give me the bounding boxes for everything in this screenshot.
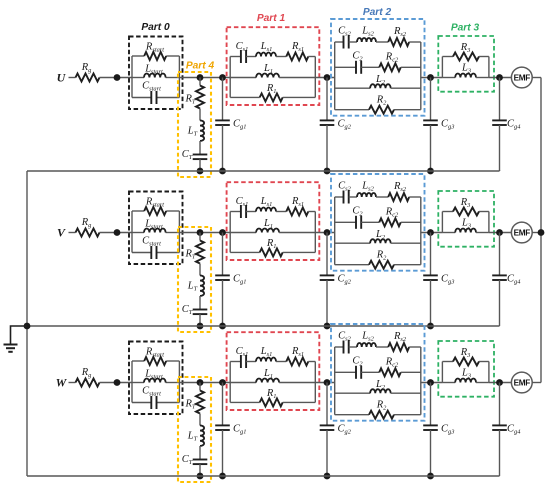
- wire (Part 1 left rail): [229, 362, 231, 403]
- resistor R_g (phase U): [76, 62, 100, 82]
- wire (left rail): [26, 171, 28, 476]
- svg-text:C2: C2: [352, 206, 363, 218]
- Part 1 box (phase W): [227, 332, 320, 410]
- svg-text:Cg2: Cg2: [338, 274, 352, 286]
- capacitor C_s1 (phase U): [230, 41, 248, 63]
- wire: [179, 382, 230, 384]
- node (phase U) C_g2 bottom: [324, 168, 331, 175]
- wire: [69, 232, 76, 234]
- node (phase W) Part 4 top: [197, 379, 204, 386]
- Part 3 box (phase V): [438, 191, 494, 247]
- resistor R_2 (phase V): [335, 250, 421, 269]
- svg-text:Cg1: Cg1: [233, 424, 246, 436]
- svg-text:Cg4: Cg4: [507, 274, 521, 286]
- resistor R_s1 (phase U): [276, 41, 315, 60]
- svg-text:Cstart: Cstart: [142, 81, 161, 93]
- wire: [179, 77, 230, 79]
- capacitor C_s2 (phase U): [335, 26, 352, 49]
- svg-text:Cg3: Cg3: [441, 274, 454, 286]
- resistor R_g (phase W): [76, 367, 100, 387]
- Part 3 box (phase U): [438, 36, 494, 92]
- wire (right rail): [540, 78, 542, 383]
- capacitor C_2 (phase U): [335, 51, 364, 74]
- node (phase V) C_g4 top: [496, 229, 503, 236]
- resistor R_1 (phase U): [230, 83, 315, 102]
- svg-text:L3: L3: [461, 368, 471, 380]
- wire: [421, 232, 443, 234]
- node (phase U) after R_g: [114, 74, 121, 81]
- svg-text:EMF: EMF: [514, 229, 531, 238]
- source EMF (phase V): [511, 222, 532, 243]
- wire: [489, 77, 511, 79]
- Part 0 box (phase U): [129, 37, 183, 110]
- wire (Part 3 right rail): [488, 212, 490, 233]
- node (phase W) C_g2 top: [324, 379, 331, 386]
- svg-text:LT: LT: [187, 281, 198, 293]
- capacitor C_g3 (phase V): [423, 233, 454, 327]
- node (phase V) C_g1 top: [219, 229, 226, 236]
- svg-text:Lstart: Lstart: [144, 369, 163, 381]
- svg-text:Rs1: Rs1: [291, 41, 304, 53]
- svg-text:L1: L1: [263, 368, 273, 380]
- wire (Part 1 right rail): [314, 362, 316, 403]
- svg-text:Cg1: Cg1: [233, 119, 246, 131]
- svg-text:Ls1: Ls1: [260, 41, 273, 53]
- node (phase V) C_g2 top: [324, 229, 331, 236]
- Part 2 box (phase V): [331, 174, 425, 271]
- svg-text:R2: R2: [376, 95, 387, 107]
- resistor R_T (phase W): [185, 383, 204, 414]
- svg-text:Cs2: Cs2: [338, 331, 352, 343]
- wire (bottom rail phase W): [27, 475, 500, 477]
- svg-text:Ls1: Ls1: [260, 346, 273, 358]
- capacitor C_g1 (phase U): [215, 78, 246, 172]
- wire (Part 0 right rail): [178, 211, 180, 253]
- svg-text:Rc2: Rc2: [385, 207, 399, 219]
- svg-text:C2: C2: [352, 356, 363, 368]
- capacitor C_g2 (phase W): [320, 383, 352, 477]
- node (phase V) C_g3 bottom: [427, 323, 434, 330]
- svg-text:Cg2: Cg2: [338, 424, 352, 436]
- wire (Part 0 left rail): [131, 211, 133, 253]
- node V (phase input label): [57, 226, 66, 240]
- wire: [100, 77, 133, 79]
- wire: [69, 382, 76, 384]
- resistor R_1 (phase V): [230, 238, 315, 257]
- node (phase U) C_g1 bottom: [219, 168, 226, 175]
- svg-text:Rc2: Rc2: [385, 52, 399, 64]
- svg-text:W: W: [56, 376, 68, 390]
- node (phase W) Part 4 bottom: [197, 473, 204, 480]
- inductor L_2 (phase U): [335, 74, 421, 88]
- wire (Part 1 right rail): [314, 57, 316, 98]
- svg-text:EMF: EMF: [514, 74, 531, 83]
- svg-text:Rc2: Rc2: [385, 357, 399, 369]
- wire (Part 2 left rail): [334, 42, 336, 110]
- svg-text:U: U: [57, 71, 67, 85]
- node W (phase input label): [56, 376, 68, 390]
- wire (Part 2 left rail): [334, 347, 336, 415]
- svg-text:Part 4: Part 4: [186, 61, 215, 72]
- svg-text:R3: R3: [460, 347, 471, 359]
- inductor L_1 (phase W): [230, 368, 315, 382]
- wire: [315, 77, 334, 79]
- node (phase V) Part 4 bottom: [197, 323, 204, 330]
- capacitor C_g3 (phase U): [423, 78, 454, 172]
- Part 0 box (phase W): [129, 342, 183, 415]
- svg-text:Part 2: Part 2: [363, 7, 392, 18]
- inductor L_3 (phase W): [442, 368, 489, 383]
- wire (bottom rail phase U): [27, 170, 500, 172]
- resistor R_c2 (phase V): [361, 207, 421, 227]
- capacitor C_start (phase W): [132, 386, 179, 410]
- node (phase U) C_g1 top: [219, 74, 226, 81]
- wire: [532, 382, 541, 384]
- inductor L_3 (phase U): [442, 63, 489, 78]
- capacitor C_g1 (phase V): [215, 233, 246, 327]
- svg-text:Cs1: Cs1: [236, 41, 249, 53]
- node U (phase input label): [57, 71, 67, 85]
- Part 2 box (phase W): [331, 324, 425, 421]
- svg-text:L2: L2: [375, 74, 386, 86]
- svg-text:V: V: [57, 226, 66, 240]
- svg-text:LT: LT: [187, 431, 198, 443]
- inductor L_T (phase U): [187, 109, 204, 141]
- wire (Part 1 left rail): [229, 212, 231, 253]
- svg-text:CT: CT: [182, 149, 193, 161]
- svg-text:R2: R2: [376, 400, 387, 412]
- svg-text:CT: CT: [182, 304, 193, 316]
- wire: [179, 232, 230, 234]
- svg-text:Cs1: Cs1: [236, 346, 249, 358]
- svg-text:Rg: Rg: [81, 217, 92, 229]
- capacitor C_T (phase U): [182, 141, 208, 171]
- label Part 4: [186, 61, 215, 72]
- svg-text:Cg1: Cg1: [233, 274, 246, 286]
- svg-text:Lstart: Lstart: [144, 64, 163, 76]
- svg-text:Cg4: Cg4: [507, 119, 521, 131]
- svg-text:L3: L3: [461, 63, 471, 75]
- node (phase U) C_g3 top: [427, 74, 434, 81]
- inductor L_s2 (phase V): [349, 181, 376, 198]
- svg-text:Cstart: Cstart: [142, 386, 161, 398]
- wire (Part 0 right rail): [178, 56, 180, 98]
- node (star point / ground junction): [24, 323, 31, 330]
- svg-text:L3: L3: [461, 218, 471, 230]
- wire: [315, 232, 334, 234]
- node (phase W) C_g2 bottom: [324, 473, 331, 480]
- inductor L_3 (phase V): [442, 218, 489, 233]
- node (phase V) C_g3 top: [427, 229, 434, 236]
- node (phase W) after R_g: [114, 379, 121, 386]
- node (phase V) C_g2 bottom: [324, 323, 331, 330]
- Part 3 box (phase W): [438, 341, 494, 397]
- Part 0 box (phase V): [129, 192, 183, 265]
- capacitor C_g4 (phase U): [492, 78, 521, 172]
- node (right rail joint, phase V): [538, 229, 545, 236]
- resistor R_g (phase V): [76, 217, 100, 237]
- svg-text:Rs2: Rs2: [393, 26, 407, 38]
- inductor L_T (phase W): [187, 414, 204, 446]
- resistor R_T (phase V): [185, 233, 204, 264]
- capacitor C_s2 (phase W): [335, 331, 352, 354]
- svg-text:L2: L2: [375, 229, 386, 241]
- svg-text:C2: C2: [352, 51, 363, 63]
- source EMF (phase U): [511, 67, 532, 88]
- svg-text:Cstart: Cstart: [142, 236, 161, 248]
- wire: [532, 232, 541, 234]
- svg-text:Rs2: Rs2: [393, 181, 407, 193]
- wire (Part 3 left rail): [441, 57, 443, 78]
- node (phase W) C_g1 bottom: [219, 473, 226, 480]
- Part 1 box (phase V): [227, 182, 320, 260]
- wire (bottom rail phase V): [27, 325, 500, 327]
- Part 4 box (phase V): [178, 227, 211, 332]
- capacitor C_g2 (phase U): [320, 78, 352, 172]
- svg-text:Rstart: Rstart: [145, 42, 164, 54]
- svg-text:Part 3: Part 3: [451, 23, 480, 34]
- svg-text:RT: RT: [185, 94, 196, 106]
- svg-text:R1: R1: [266, 238, 277, 250]
- capacitor C_g3 (phase W): [423, 383, 454, 477]
- node (phase U) Part 4 top: [197, 74, 204, 81]
- wire (Part 3 left rail): [441, 362, 443, 383]
- label Part 0: [141, 22, 170, 33]
- svg-text:Cg4: Cg4: [507, 424, 521, 436]
- wire (Part 3 right rail): [488, 57, 490, 78]
- svg-text:Rg: Rg: [81, 367, 92, 379]
- node (phase U) C_g2 top: [324, 74, 331, 81]
- inductor L_s1 (phase W): [246, 346, 276, 361]
- inductor L_2 (phase V): [335, 229, 421, 243]
- wire: [489, 382, 511, 384]
- wire (Part 1 right rail): [314, 212, 316, 253]
- svg-text:RT: RT: [185, 399, 196, 411]
- capacitor C_start (phase V): [132, 236, 179, 260]
- capacitor C_s2 (phase V): [335, 181, 352, 204]
- label Part 1: [257, 13, 286, 24]
- Part 4 box (phase W): [178, 377, 211, 482]
- svg-text:Lstart: Lstart: [144, 219, 163, 231]
- node (phase V) Part 4 top: [197, 229, 204, 236]
- capacitor C_2 (phase V): [335, 206, 364, 229]
- capacitor C_g1 (phase W): [215, 383, 246, 477]
- wire (Part 3 right rail): [488, 362, 490, 383]
- wire: [489, 232, 511, 234]
- label Part 3: [451, 23, 480, 34]
- svg-text:L1: L1: [263, 218, 273, 230]
- resistor R_start (phase V): [132, 197, 179, 215]
- svg-text:Part 1: Part 1: [257, 13, 286, 24]
- resistor R_1 (phase W): [230, 388, 315, 407]
- svg-text:Cg2: Cg2: [338, 119, 352, 131]
- svg-text:R1: R1: [266, 388, 277, 400]
- wire (Part 2 right rail): [420, 197, 422, 265]
- capacitor C_2 (phase W): [335, 356, 364, 379]
- node (phase V) C_g1 bottom: [219, 323, 226, 330]
- node (phase U) C_g3 bottom: [427, 168, 434, 175]
- svg-text:Cg3: Cg3: [441, 424, 454, 436]
- wire (C_g4 bottom corner U): [499, 169, 501, 172]
- wire: [421, 382, 443, 384]
- wire (Part 2 left rail): [334, 197, 336, 265]
- ground: [4, 326, 28, 352]
- svg-text:Cg3: Cg3: [441, 119, 454, 131]
- resistor R_c2 (phase U): [361, 52, 421, 72]
- resistor R_2 (phase U): [335, 95, 421, 114]
- resistor R_3 (phase V): [442, 197, 489, 216]
- svg-text:R3: R3: [460, 197, 471, 209]
- svg-text:L2: L2: [375, 379, 386, 391]
- svg-text:R2: R2: [376, 250, 387, 262]
- svg-text:R1: R1: [266, 83, 277, 95]
- svg-text:Ls2: Ls2: [361, 26, 374, 38]
- inductor L_2 (phase W): [335, 379, 421, 393]
- svg-text:Ls2: Ls2: [361, 331, 374, 343]
- svg-text:Ls1: Ls1: [260, 196, 273, 208]
- inductor L_s2 (phase W): [349, 331, 376, 348]
- Part 2 box (phase U): [331, 19, 425, 116]
- resistor R_3 (phase U): [442, 42, 489, 61]
- node (phase W) C_g3 bottom: [427, 473, 434, 480]
- svg-text:Cs2: Cs2: [338, 26, 352, 38]
- wire: [69, 77, 76, 79]
- resistor R_s1 (phase V): [276, 196, 315, 215]
- inductor L_s2 (phase U): [349, 26, 376, 43]
- svg-text:Rs2: Rs2: [393, 331, 407, 343]
- svg-text:Rs1: Rs1: [291, 346, 304, 358]
- node (phase W) C_g1 top: [219, 379, 226, 386]
- wire: [532, 77, 541, 79]
- resistor R_T (phase U): [185, 78, 204, 109]
- wire (Part 2 right rail): [420, 42, 422, 110]
- wire: [100, 232, 133, 234]
- wire: [421, 77, 443, 79]
- resistor R_s2 (phase V): [376, 181, 421, 201]
- svg-text:CT: CT: [182, 454, 193, 466]
- source EMF (phase W): [511, 372, 532, 393]
- Part 1 box (phase U): [227, 27, 320, 105]
- svg-text:Ls2: Ls2: [361, 181, 374, 193]
- svg-text:L1: L1: [263, 63, 273, 75]
- capacitor C_g4 (phase W): [492, 383, 521, 477]
- svg-text:R3: R3: [460, 42, 471, 54]
- node (phase V) after R_g: [114, 229, 121, 236]
- resistor R_s1 (phase W): [276, 346, 315, 365]
- svg-text:Rstart: Rstart: [145, 197, 164, 209]
- inductor L_T (phase V): [187, 264, 204, 296]
- capacitor C_s1 (phase V): [230, 196, 248, 218]
- svg-text:Rs1: Rs1: [291, 196, 304, 208]
- inductor L_start (phase V): [132, 219, 179, 233]
- inductor L_start (phase W): [132, 369, 179, 383]
- wire: [315, 382, 334, 384]
- wire (Part 2 right rail): [420, 347, 422, 415]
- capacitor C_T (phase V): [182, 296, 208, 326]
- wire (Part 3 left rail): [441, 212, 443, 233]
- svg-text:Part 0: Part 0: [141, 22, 170, 33]
- node (phase W) C_g3 top: [427, 379, 434, 386]
- svg-text:Rg: Rg: [81, 62, 92, 74]
- capacitor C_T (phase W): [182, 446, 208, 476]
- node (phase U) Part 4 bottom: [197, 168, 204, 175]
- wire (Part 1 left rail): [229, 57, 231, 98]
- capacitor C_start (phase U): [132, 81, 179, 105]
- svg-text:RT: RT: [185, 249, 196, 261]
- svg-text:EMF: EMF: [514, 379, 531, 388]
- resistor R_2 (phase W): [335, 400, 421, 419]
- resistor R_s2 (phase U): [376, 26, 421, 46]
- resistor R_start (phase U): [132, 42, 179, 60]
- wire (Part 0 left rail): [131, 361, 133, 403]
- inductor L_s1 (phase U): [246, 41, 276, 56]
- svg-text:Cs1: Cs1: [236, 196, 249, 208]
- capacitor C_g2 (phase V): [320, 233, 352, 327]
- wire: [100, 382, 133, 384]
- resistor R_s2 (phase W): [376, 331, 421, 351]
- resistor R_start (phase W): [132, 347, 179, 365]
- svg-text:Rstart: Rstart: [145, 347, 164, 359]
- svg-text:LT: LT: [187, 126, 198, 138]
- capacitor C_s1 (phase W): [230, 346, 248, 368]
- resistor R_3 (phase W): [442, 347, 489, 366]
- inductor L_1 (phase U): [230, 63, 315, 77]
- wire (Part 0 right rail): [178, 361, 180, 403]
- inductor L_1 (phase V): [230, 218, 315, 232]
- resistor R_c2 (phase W): [361, 357, 421, 377]
- Part 4 box (phase U): [178, 72, 211, 177]
- node (phase W) C_g4 top: [496, 379, 503, 386]
- svg-text:Cs2: Cs2: [338, 181, 352, 193]
- label Part 2: [363, 7, 392, 18]
- inductor L_start (phase U): [132, 64, 179, 78]
- wire (Part 0 left rail): [131, 56, 133, 98]
- capacitor C_g4 (phase V): [492, 233, 521, 327]
- inductor L_s1 (phase V): [246, 196, 276, 211]
- node (phase U) C_g4 top: [496, 74, 503, 81]
